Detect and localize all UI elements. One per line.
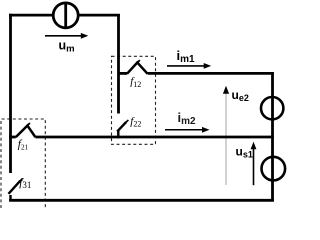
wire left xyxy=(9,14,12,173)
switch f31 (open contact in vertical branch) xyxy=(9,179,23,202)
u_e2 arrow (gray shaft, black head) xyxy=(223,86,229,185)
wire vertical feed x=118.5 (top wire down to f22) xyxy=(117,14,120,114)
wire top xyxy=(9,14,120,17)
u_s1 arrow xyxy=(251,142,257,186)
dashed box around f21/f31 group xyxy=(1,119,45,208)
wire i_m2 (node to right wire) xyxy=(35,136,274,139)
wire bottom xyxy=(9,199,274,202)
svg-text:f31: f31 xyxy=(19,177,31,190)
voltage source U_e2 xyxy=(261,97,283,119)
i_m1 arrow xyxy=(167,63,211,69)
switch f21 (chevron contact) xyxy=(9,123,35,137)
switch f22 (open contact in vertical branch) xyxy=(117,120,128,138)
voltage source U_s1 xyxy=(262,157,286,181)
i_m2 arrow xyxy=(165,127,210,133)
wire right xyxy=(271,72,274,201)
current source U_m xyxy=(53,2,78,28)
u_m arrow xyxy=(45,33,88,39)
dashed box around f12/f22 group xyxy=(112,56,156,144)
wire i_m1 (node to right wire) xyxy=(148,72,274,75)
switch f12 (chevron contact) xyxy=(119,60,148,74)
